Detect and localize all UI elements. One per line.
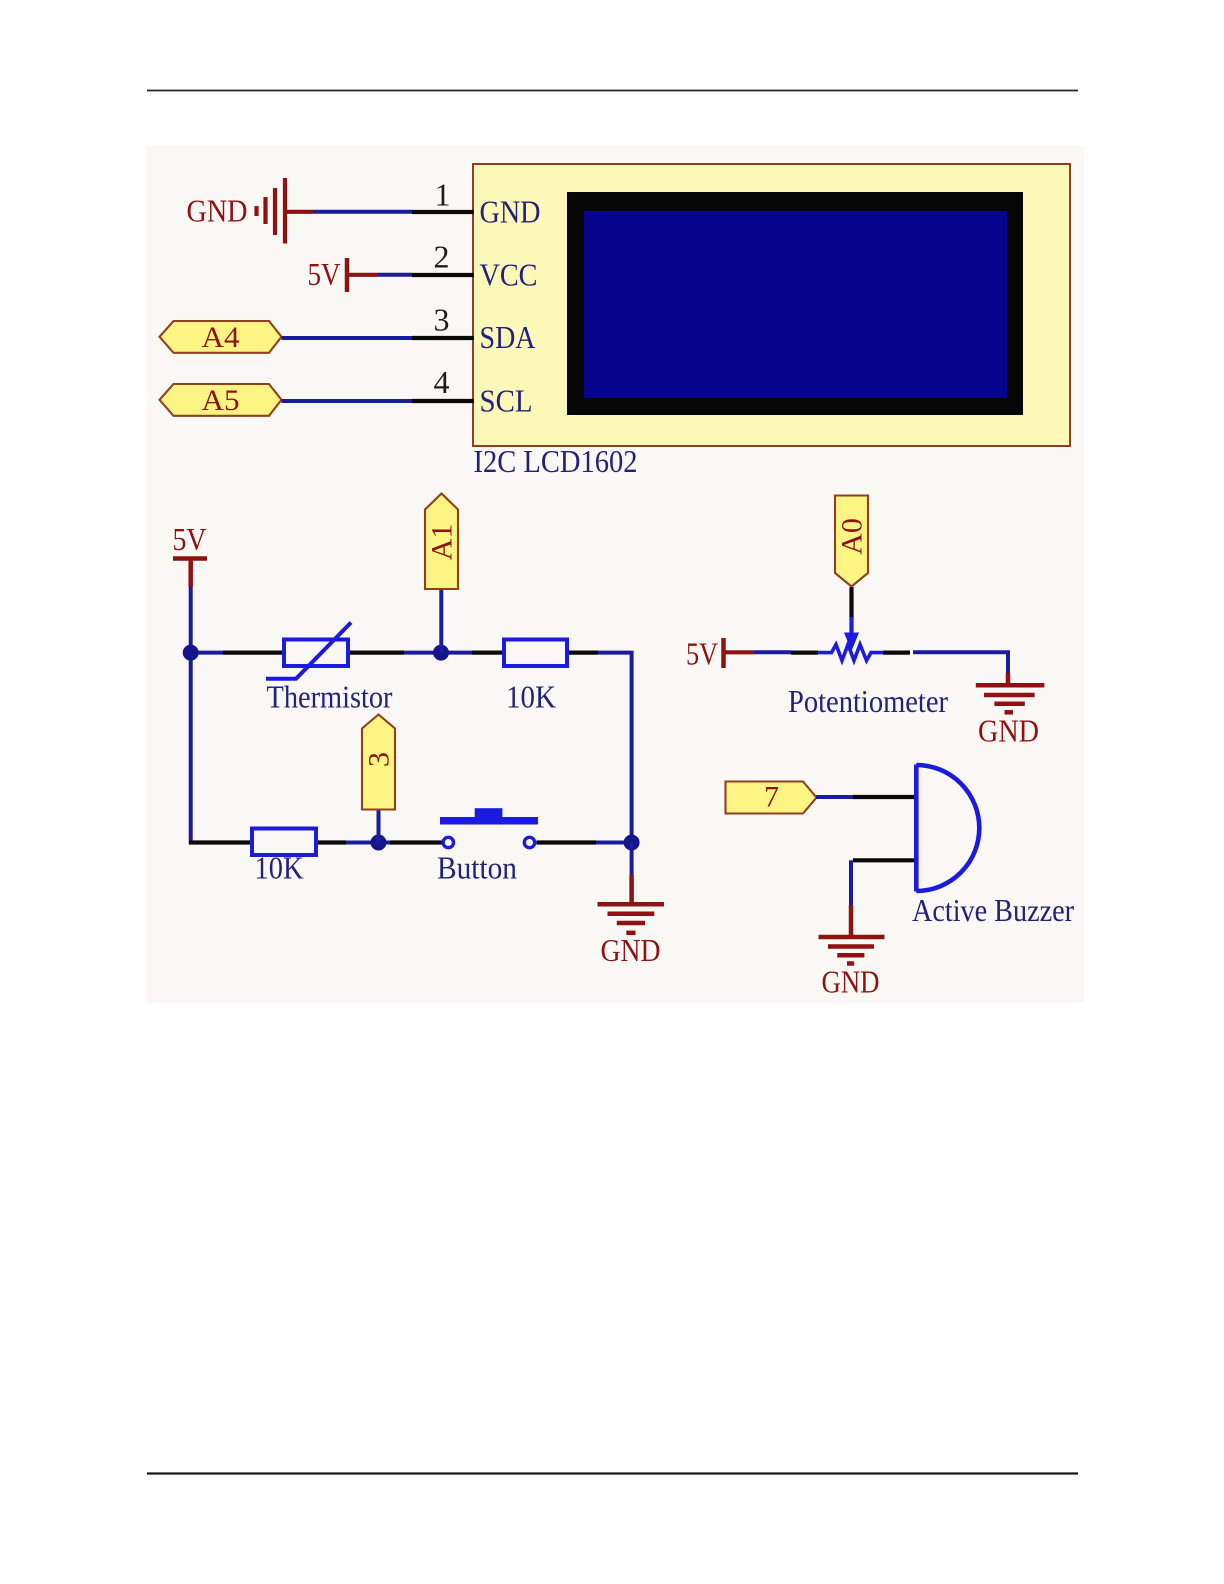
svg-text:GND: GND [187, 193, 248, 229]
power port GND (top left, earth rotated) [257, 178, 314, 244]
wire A5 to pin 4 [282, 399, 413, 403]
junction left rail [183, 645, 199, 661]
junction gnd rail [624, 835, 640, 851]
svg-text:Active Buzzer: Active Buzzer [912, 892, 1074, 928]
wire button to gnd rail [596, 841, 634, 845]
wire thermistor to node A1 [404, 651, 472, 655]
wire rail to gnd [630, 843, 634, 876]
svg-text:GND: GND [601, 932, 661, 968]
U1 I2C LCD1602 body [473, 164, 1070, 446]
svg-text:GND: GND [822, 964, 880, 1000]
svg-text:5V: 5V [308, 256, 341, 292]
svg-text:A0: A0 [836, 518, 869, 555]
svg-text:SCL: SCL [480, 383, 533, 419]
svg-text:Potentiometer: Potentiometer [788, 683, 948, 719]
wire buzzer pin2 to gnd [849, 860, 853, 907]
svg-text:GND: GND [978, 713, 1039, 749]
power port GND (buzzer) [819, 905, 885, 964]
port A0 [835, 496, 868, 587]
pin 1 (GND) [412, 210, 474, 214]
svg-text:2: 2 [434, 239, 450, 275]
svg-text:SDA: SDA [480, 319, 536, 355]
wire GND to pin 1 [313, 210, 412, 214]
LCD screen glass [584, 211, 1007, 398]
wire port 7 to buzzer [816, 795, 853, 799]
svg-text:3: 3 [363, 752, 396, 767]
power port 5V (thermistor circuit) [173, 556, 207, 561]
wire 5V to pin 2 [378, 273, 412, 277]
wire A1 port down [439, 589, 443, 653]
power port 5V (potentiometer) [721, 638, 726, 668]
svg-text:A5: A5 [202, 384, 240, 417]
power port GND (mid bottom) [598, 875, 665, 933]
wire left rail vertical [189, 587, 193, 845]
pin 3 (SDA) [412, 336, 474, 340]
svg-text:10K: 10K [255, 850, 304, 886]
wire R2 to button [346, 841, 390, 845]
svg-text:4: 4 [434, 364, 450, 400]
pin 4 (SCL) [412, 399, 474, 403]
svg-text:3: 3 [434, 302, 450, 338]
port A1 [425, 494, 458, 590]
port A4 [160, 321, 282, 353]
svg-text:10K: 10K [506, 679, 556, 715]
port 7 [726, 782, 817, 814]
thermistor [223, 623, 404, 679]
svg-text:A1: A1 [426, 524, 459, 561]
power port 5V (pin 2) [345, 258, 350, 292]
wire 5V to potentiometer [754, 650, 791, 654]
svg-text:Thermistor: Thermistor [267, 679, 393, 715]
resistor 10K bottom [189, 829, 346, 856]
svg-text:5V: 5V [173, 521, 207, 557]
pin 2 (VCC) [412, 273, 474, 277]
svg-text:A4: A4 [202, 321, 240, 354]
junction node A1 [433, 645, 449, 661]
LCD screen bezel [567, 192, 1023, 415]
wire left node horizontal [189, 651, 223, 655]
port A5 [160, 384, 282, 416]
svg-text:Button: Button [437, 850, 517, 886]
wire R1 to right rail [598, 653, 632, 845]
wire potentiometer to gnd [913, 652, 1008, 677]
svg-text:VCC: VCC [480, 257, 538, 293]
potentiometer [791, 587, 910, 661]
svg-text:7: 7 [764, 781, 779, 814]
buzzer Active Buzzer [853, 765, 979, 892]
wire port 3 down [377, 810, 381, 843]
resistor 10K top [472, 640, 598, 667]
svg-text:I2C LCD1602: I2C LCD1602 [474, 443, 638, 479]
svg-text:5V: 5V [686, 636, 718, 672]
button [390, 808, 596, 848]
junction node 3 [371, 835, 387, 851]
port 3 [362, 715, 395, 810]
svg-text:1: 1 [435, 177, 451, 213]
power port GND (right of potentiometer) [976, 673, 1045, 712]
svg-text:GND: GND [480, 194, 541, 230]
wire A4 to pin 3 [282, 336, 413, 340]
